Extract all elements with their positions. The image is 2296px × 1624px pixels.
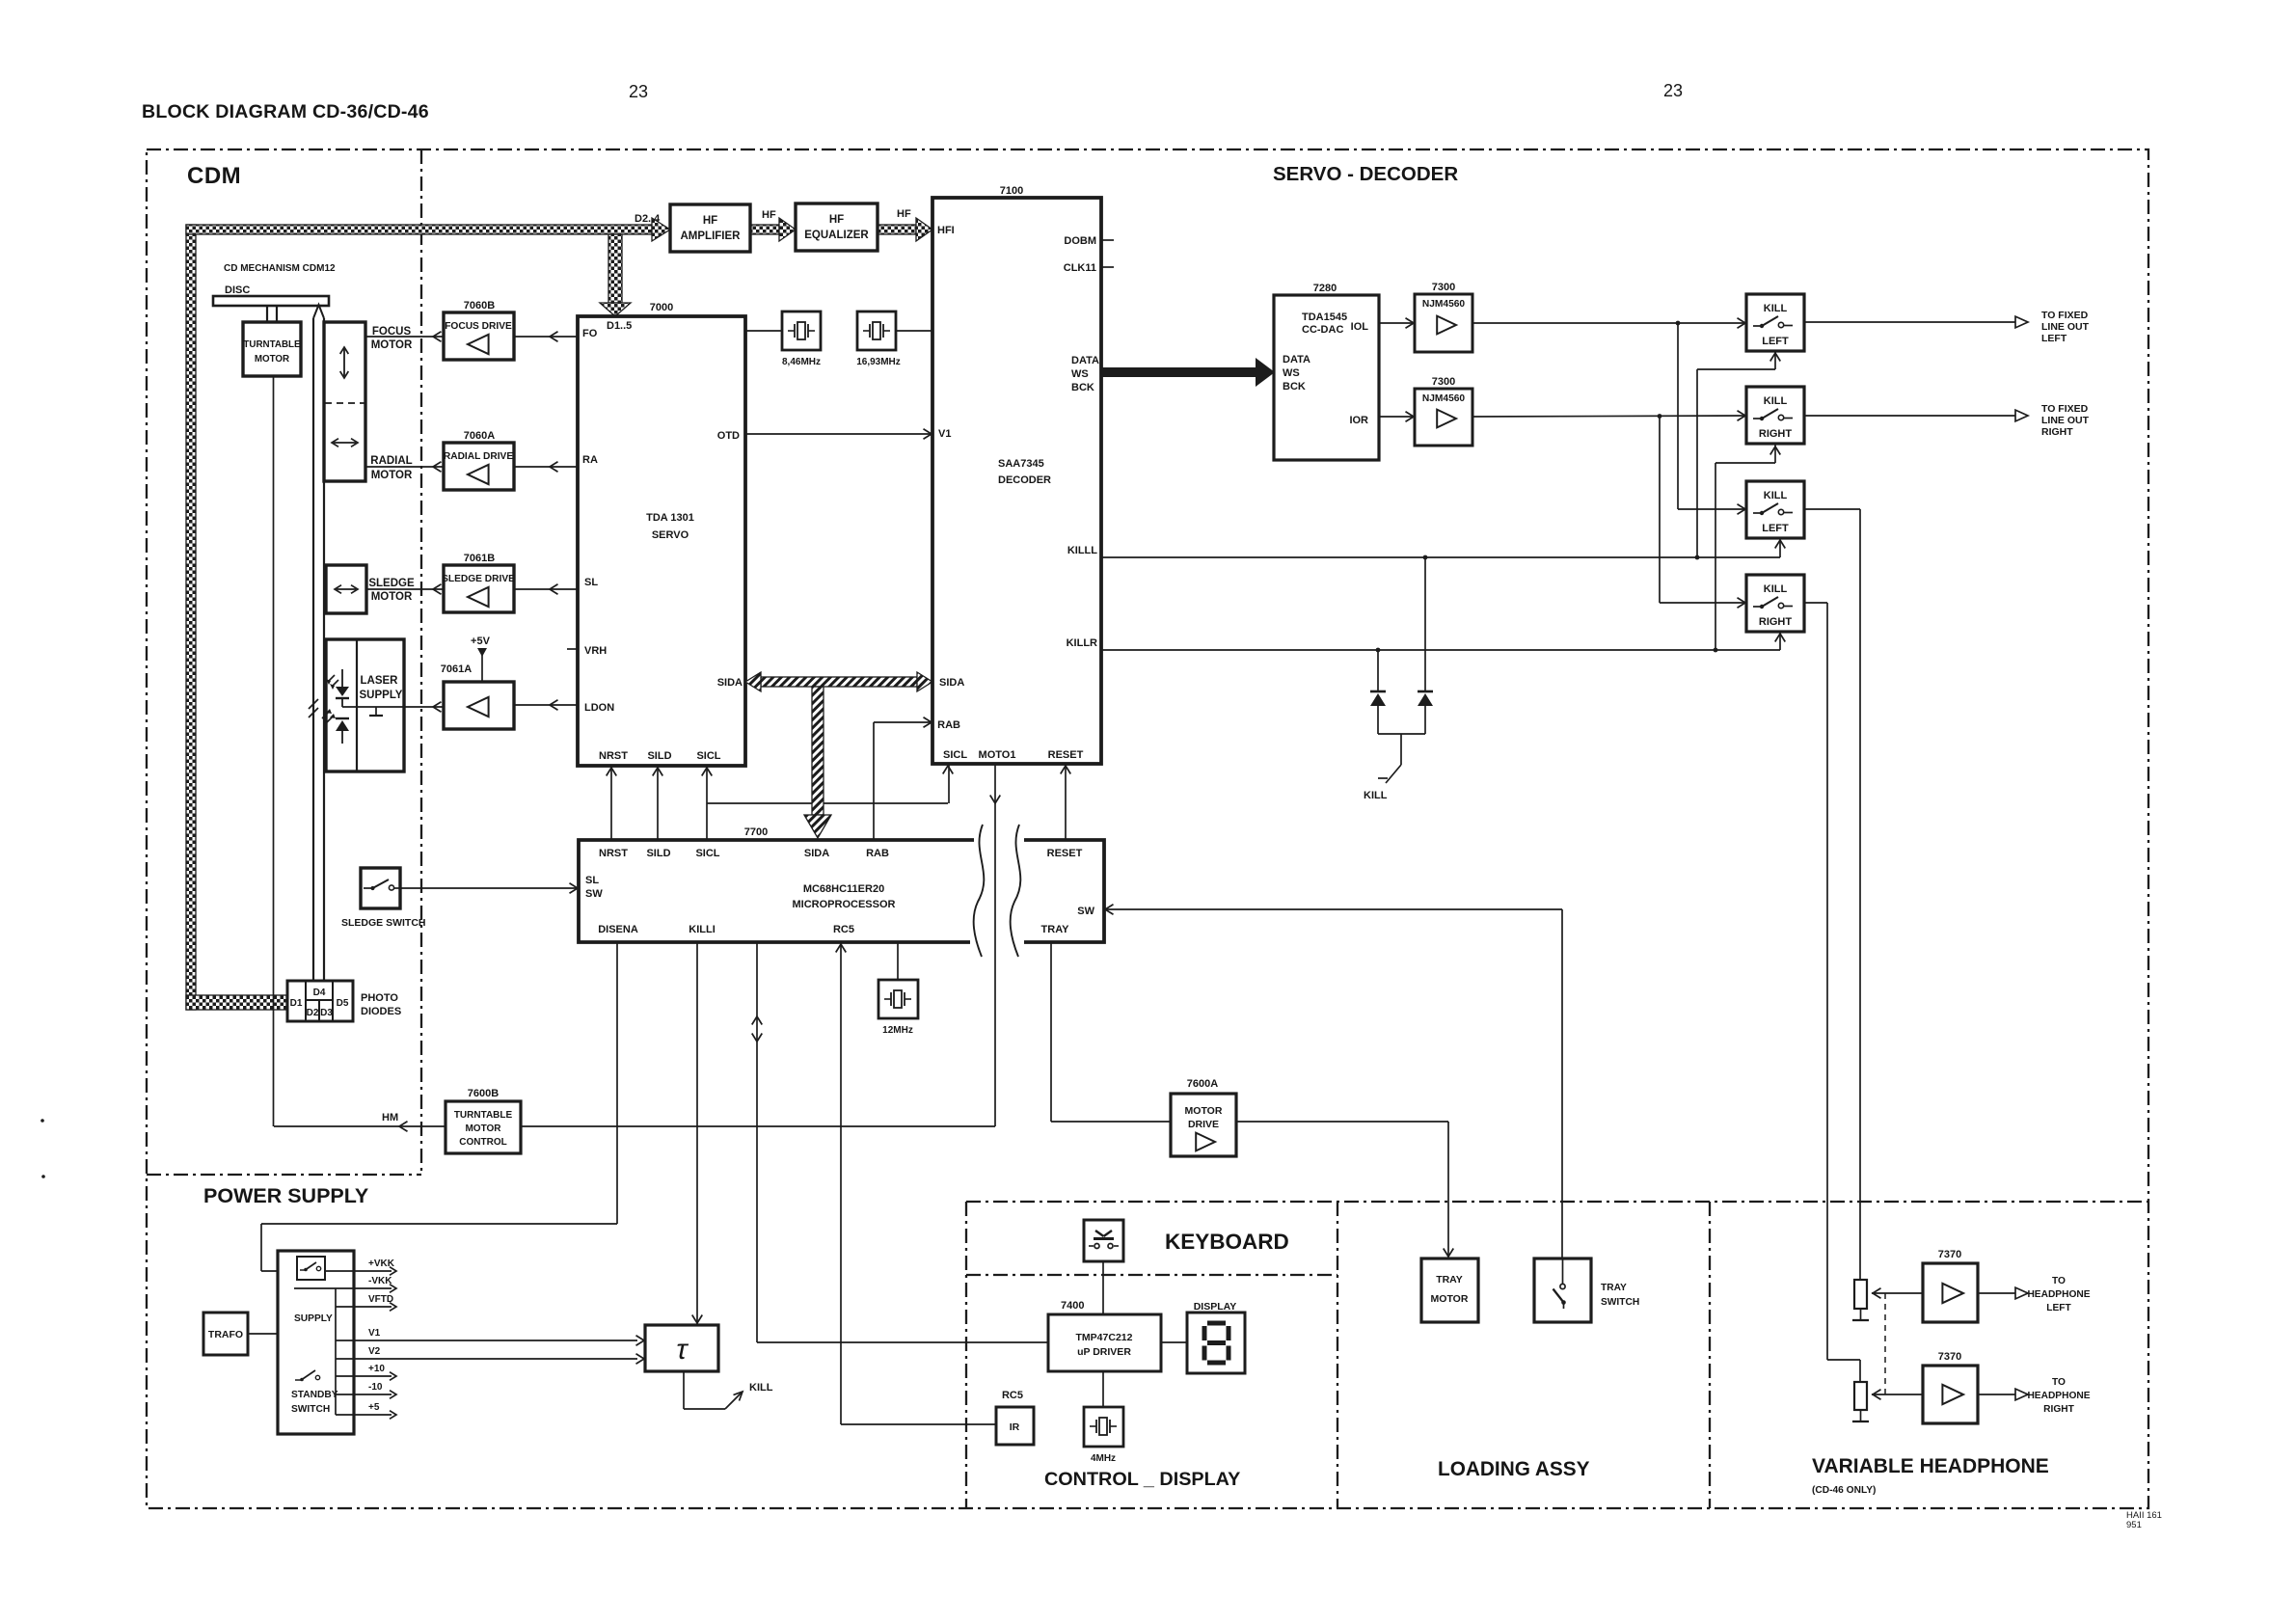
diode on KILLR bbox=[1370, 690, 1386, 693]
wire focus drive to focus motor bbox=[365, 336, 444, 338]
svg-text:NRST: NRST bbox=[599, 750, 628, 762]
svg-text:KILL: KILL bbox=[749, 1382, 773, 1394]
svg-text:KILL: KILL bbox=[1764, 583, 1788, 595]
laser diode bbox=[341, 669, 343, 687]
tray motor bbox=[1421, 1259, 1478, 1322]
svg-text:SL: SL bbox=[584, 577, 598, 588]
wire audio left to kill switches bbox=[1472, 322, 1746, 324]
svg-text:8,46MHz: 8,46MHz bbox=[782, 357, 821, 367]
transformer TRAFO bbox=[203, 1313, 248, 1355]
svg-text:KILLL: KILLL bbox=[1067, 545, 1097, 556]
svg-text:MICROPROCESSOR: MICROPROCESSOR bbox=[793, 899, 896, 910]
wire TDA1301 RA to radial drive bbox=[514, 466, 578, 468]
svg-text:TURNTABLE: TURNTABLE bbox=[454, 1110, 513, 1121]
svg-text:+VKK: +VKK bbox=[368, 1259, 395, 1269]
wire KILLR net bbox=[1101, 649, 1780, 651]
LOADING / HEADPHONE divider bbox=[1709, 1202, 1711, 1508]
wire DISENA to power supply bbox=[616, 942, 618, 1224]
wire KILLL to diode bbox=[1423, 555, 1428, 560]
svg-text:VRH: VRH bbox=[584, 645, 607, 657]
wire motor drive to tray motor bbox=[1236, 1121, 1448, 1123]
svg-text:12MHz: 12MHz bbox=[882, 1025, 913, 1036]
svg-text:KEYBOARD: KEYBOARD bbox=[1165, 1230, 1289, 1254]
svg-text:IR: IR bbox=[1010, 1421, 1020, 1433]
svg-text:SIDA: SIDA bbox=[717, 677, 743, 689]
supply box bbox=[278, 1251, 354, 1434]
kill switch fixed left bbox=[1746, 294, 1804, 351]
svg-text:+5: +5 bbox=[368, 1402, 380, 1413]
diode common wire bbox=[1378, 733, 1425, 735]
svg-text:NRST: NRST bbox=[599, 848, 628, 859]
svg-text:7600B: 7600B bbox=[468, 1088, 499, 1099]
svg-text:SICL: SICL bbox=[696, 750, 720, 762]
svg-text:7061A: 7061A bbox=[441, 663, 472, 675]
svg-text:RESET: RESET bbox=[1047, 848, 1083, 859]
svg-text:D1..5: D1..5 bbox=[607, 320, 632, 332]
disc platter bbox=[213, 296, 329, 306]
HF equalizer bbox=[796, 203, 878, 251]
svg-text:7280: 7280 bbox=[1313, 283, 1337, 294]
svg-text:EQUALIZER: EQUALIZER bbox=[804, 230, 869, 241]
svg-text:CONTROL _ DISPLAY: CONTROL _ DISPLAY bbox=[1044, 1469, 1240, 1490]
svg-text:TURNTABLE: TURNTABLE bbox=[243, 339, 301, 350]
svg-text:SICL: SICL bbox=[943, 749, 967, 761]
bottom sections top border bbox=[966, 1201, 2148, 1203]
V1 rail to tau bbox=[336, 1340, 637, 1341]
svg-text:SW: SW bbox=[1077, 906, 1094, 917]
svg-text:NJM4560: NJM4560 bbox=[1422, 393, 1466, 404]
bus arrowhead into HF equalizer bbox=[779, 218, 796, 241]
svg-text:SAA7345: SAA7345 bbox=[998, 458, 1044, 470]
pot right ground bbox=[1860, 1410, 1862, 1421]
svg-text:MOTOR: MOTOR bbox=[1185, 1105, 1223, 1117]
-10 rail bbox=[336, 1394, 392, 1395]
svg-text:KILL: KILL bbox=[1364, 790, 1388, 801]
wire MOTO1 to turntable motor control bbox=[994, 764, 996, 1126]
wire KILLR to diode bbox=[1376, 648, 1381, 653]
svg-text:D3: D3 bbox=[320, 1008, 333, 1018]
svg-text:V2: V2 bbox=[368, 1346, 381, 1357]
svg-text:RC5: RC5 bbox=[833, 924, 854, 935]
pot left ground bbox=[1860, 1309, 1862, 1320]
svg-text:7061B: 7061B bbox=[464, 553, 495, 564]
svg-text:CC-DAC: CC-DAC bbox=[1302, 324, 1343, 336]
svg-text:HFI: HFI bbox=[937, 225, 955, 236]
svg-text:+5V: +5V bbox=[471, 636, 491, 647]
svg-text:SLEDGE SWITCH: SLEDGE SWITCH bbox=[341, 917, 426, 929]
svg-text:7000: 7000 bbox=[650, 302, 673, 313]
svg-text:LEFT: LEFT bbox=[2046, 1303, 2071, 1313]
svg-text:SWITCH: SWITCH bbox=[1601, 1297, 1639, 1308]
wire to headphone left bbox=[1978, 1292, 2015, 1294]
svg-text:KILL: KILL bbox=[1764, 490, 1788, 501]
KEYBOARD section divider bbox=[966, 1274, 1337, 1276]
svg-text:FOCUS DRIVE: FOCUS DRIVE bbox=[445, 321, 512, 332]
kill switch fixed right bbox=[1746, 387, 1804, 444]
wire RESET decoder to microprocessor bbox=[1065, 764, 1067, 840]
svg-text:-VKK: -VKK bbox=[368, 1276, 392, 1286]
svg-text:FO: FO bbox=[582, 328, 598, 339]
svg-text:LINE OUT: LINE OUT bbox=[2041, 321, 2090, 333]
svg-text:BCK: BCK bbox=[1071, 382, 1094, 393]
bus arrowhead into HF amplifier bbox=[652, 218, 670, 241]
kill switch variable right bbox=[1746, 575, 1804, 632]
svg-text:MOTOR: MOTOR bbox=[1431, 1293, 1469, 1305]
photodiode bus bottom horizontal bbox=[186, 995, 286, 1010]
svg-text:V1: V1 bbox=[938, 428, 951, 440]
sledge switch bbox=[361, 868, 400, 908]
supply internal bus bbox=[335, 1288, 337, 1415]
wire trafo to supply bbox=[248, 1333, 278, 1335]
SIDA bus servo-decoder (hatched) bbox=[761, 677, 917, 687]
V2 rail to tau bbox=[336, 1358, 637, 1360]
keyboard key switch bbox=[1084, 1220, 1123, 1261]
scan speck 1 bbox=[41, 1119, 44, 1123]
crystal 4MHz bbox=[1102, 1371, 1104, 1407]
svg-text:TDA1545: TDA1545 bbox=[1302, 311, 1347, 323]
decoder SAA7345 U7100 bbox=[932, 198, 1101, 764]
svg-text:23: 23 bbox=[1663, 81, 1683, 100]
kill switch variable left bbox=[1746, 481, 1804, 538]
monitor photodiode bbox=[336, 717, 349, 719]
svg-text:CDM: CDM bbox=[187, 163, 241, 189]
wire NRST bbox=[610, 766, 612, 840]
wire fixed line out right bbox=[1804, 415, 2015, 417]
svg-text:WS: WS bbox=[1071, 368, 1089, 380]
wire SICL bbox=[706, 766, 708, 840]
svg-text:RIGHT: RIGHT bbox=[2041, 426, 2073, 438]
svg-text:DOBM: DOBM bbox=[1064, 235, 1096, 247]
svg-text:7400: 7400 bbox=[1061, 1300, 1084, 1312]
wire variable left to headphone pot bbox=[1804, 508, 1860, 510]
svg-text:D1: D1 bbox=[290, 998, 303, 1009]
svg-text:DATA: DATA bbox=[1071, 355, 1099, 366]
bus branch down to servo 7000 bbox=[608, 234, 622, 303]
potentiometer left bbox=[1854, 1280, 1867, 1309]
svg-text:RAB: RAB bbox=[937, 719, 960, 731]
svg-text:IOL: IOL bbox=[1351, 321, 1369, 333]
svg-text:MOTO1: MOTO1 bbox=[979, 749, 1016, 761]
laser supply ground bbox=[375, 707, 377, 716]
scan speck 2 bbox=[41, 1175, 45, 1178]
svg-text:23: 23 bbox=[629, 82, 648, 101]
svg-text:POWER SUPPLY: POWER SUPPLY bbox=[203, 1184, 368, 1207]
svg-text:IOR: IOR bbox=[1349, 415, 1368, 426]
svg-text:HF: HF bbox=[829, 214, 844, 226]
svg-text:V1: V1 bbox=[368, 1328, 381, 1339]
wire crystal to decoder bbox=[896, 330, 932, 332]
wire laser drive to laser supply LDON bbox=[404, 706, 444, 708]
svg-text:PHOTO: PHOTO bbox=[361, 992, 398, 1004]
wire TRAY to motor drive bbox=[1050, 942, 1052, 1122]
svg-text:MOTOR: MOTOR bbox=[371, 470, 413, 481]
crystal 8,46MHz bbox=[745, 330, 782, 332]
diode on KILLL bbox=[1418, 690, 1433, 693]
laser supply box bbox=[326, 639, 404, 771]
svg-text:TMP47C212: TMP47C212 bbox=[1076, 1332, 1133, 1343]
wire IOL to opamp bbox=[1379, 322, 1415, 324]
wire driver to display bbox=[1161, 1341, 1187, 1343]
svg-text:TO: TO bbox=[2052, 1276, 2066, 1286]
pot left wiper wire bbox=[1872, 1292, 1923, 1294]
svg-text:MC68HC11ER20: MC68HC11ER20 bbox=[803, 883, 884, 895]
svg-text:7370: 7370 bbox=[1938, 1351, 1961, 1363]
wire radial drive to radial motor bbox=[365, 466, 444, 468]
svg-text:SERVO: SERVO bbox=[652, 529, 689, 541]
svg-text:7100: 7100 bbox=[1000, 185, 1023, 197]
svg-text:+10: +10 bbox=[368, 1364, 385, 1374]
CONTROL_DISPLAY left border bbox=[965, 1202, 967, 1508]
servo TDA1301 U7000 bbox=[578, 316, 745, 766]
svg-text:VARIABLE HEADPHONE: VARIABLE HEADPHONE bbox=[1812, 1455, 2049, 1477]
svg-text:7370: 7370 bbox=[1938, 1249, 1961, 1260]
svg-text:BCK: BCK bbox=[1283, 381, 1306, 392]
svg-text:TRAY: TRAY bbox=[1601, 1283, 1627, 1293]
svg-text:KILL: KILL bbox=[1764, 303, 1788, 314]
svg-text:BLOCK DIAGRAM CD-36/CD-46: BLOCK DIAGRAM CD-36/CD-46 bbox=[142, 101, 429, 122]
svg-text:TO FIXED: TO FIXED bbox=[2041, 310, 2089, 321]
svg-text:HF: HF bbox=[762, 209, 776, 221]
svg-text:DATA: DATA bbox=[1283, 354, 1310, 365]
VRH stub bbox=[567, 648, 578, 650]
svg-text:TO: TO bbox=[2052, 1377, 2066, 1388]
wire sledge switch to microprocessor SL SW bbox=[400, 887, 579, 889]
svg-text:RIGHT: RIGHT bbox=[1759, 428, 1793, 440]
wire key to 7400 driver bbox=[1102, 1261, 1104, 1314]
wire SILD bbox=[657, 766, 659, 840]
svg-text:-10: -10 bbox=[368, 1382, 383, 1393]
svg-text:TRAY: TRAY bbox=[1041, 924, 1070, 935]
svg-text:DIODES: DIODES bbox=[361, 1006, 401, 1017]
svg-text:HF: HF bbox=[703, 215, 717, 227]
photodiode signal bus top horizontal to HF amplifier bbox=[186, 225, 652, 234]
wire RAB decoder to microprocessor bbox=[874, 721, 932, 723]
pot right wiper wire bbox=[1872, 1394, 1923, 1395]
svg-text:7700: 7700 bbox=[744, 826, 768, 838]
svg-text:7300: 7300 bbox=[1432, 282, 1455, 293]
wire TDA1301 SL to sledge drive bbox=[514, 588, 578, 590]
CDM section divider bbox=[420, 149, 422, 1175]
wire TDA1301 FO to focus drive bbox=[514, 336, 578, 338]
svg-text:DRIVE: DRIVE bbox=[1188, 1119, 1219, 1130]
svg-text:TRAFO: TRAFO bbox=[208, 1329, 243, 1340]
bus HF equalizer to decoder bbox=[878, 225, 916, 234]
radial direction arrow bbox=[334, 442, 356, 444]
svg-text:HF: HF bbox=[897, 208, 911, 220]
potentiometer right bbox=[1854, 1382, 1867, 1410]
svg-text:7060B: 7060B bbox=[464, 300, 495, 311]
wire KILLL net bbox=[1101, 556, 1780, 558]
light path ticks bbox=[309, 699, 318, 709]
svg-text:LEFT: LEFT bbox=[2041, 333, 2067, 344]
svg-text:MOTOR: MOTOR bbox=[255, 354, 289, 365]
svg-text:DISENA: DISENA bbox=[598, 924, 638, 935]
svg-text:RIGHT: RIGHT bbox=[2043, 1404, 2074, 1415]
laser pickup pillar bbox=[312, 318, 314, 981]
svg-text:VFTD: VFTD bbox=[368, 1294, 393, 1305]
svg-text:SW: SW bbox=[585, 888, 603, 900]
crystal 16,93MHz bbox=[857, 311, 896, 350]
svg-text:DECODER: DECODER bbox=[998, 474, 1051, 486]
svg-text:SUPPLY: SUPPLY bbox=[360, 690, 403, 701]
svg-text:TDA 1301: TDA 1301 bbox=[646, 512, 694, 524]
svg-text:AMPLIFIER: AMPLIFIER bbox=[681, 230, 742, 242]
photodiode array D1-D5 bbox=[287, 981, 353, 1021]
svg-text:LASER: LASER bbox=[361, 675, 399, 687]
svg-text:WS: WS bbox=[1283, 367, 1300, 379]
svg-text:OTD: OTD bbox=[717, 430, 740, 442]
wire OTD to decoder V1 bbox=[745, 433, 932, 435]
svg-text:SILD: SILD bbox=[647, 750, 671, 762]
svg-text:HM: HM bbox=[382, 1112, 398, 1123]
wire HM to turntable motor bbox=[274, 1125, 446, 1127]
crystal 12MHz bbox=[897, 942, 899, 980]
svg-text:uP DRIVER: uP DRIVER bbox=[1077, 1346, 1131, 1358]
focus/radial actuator bbox=[324, 322, 365, 481]
svg-text:RA: RA bbox=[582, 454, 598, 466]
svg-text:CD MECHANISM CDM12: CD MECHANISM CDM12 bbox=[224, 263, 336, 274]
spindle bbox=[266, 306, 268, 322]
svg-text:KILL: KILL bbox=[1764, 395, 1788, 407]
DOBM stub bbox=[1101, 239, 1114, 241]
svg-text:SILD: SILD bbox=[646, 848, 670, 859]
svg-text:SLEDGE: SLEDGE bbox=[368, 578, 415, 589]
wire SW from tray switch bbox=[1104, 908, 1562, 910]
turntable motor M1 bbox=[243, 322, 301, 376]
svg-text:D2..4: D2..4 bbox=[635, 213, 661, 225]
svg-text:DISC: DISC bbox=[225, 284, 250, 296]
wire TDA1301 LDON to laser drive bbox=[514, 704, 578, 706]
-VKK rail bbox=[294, 1287, 392, 1289]
turntable motor shaft wire bbox=[273, 376, 275, 1126]
svg-text:D4: D4 bbox=[313, 988, 326, 998]
svg-text:4MHz: 4MHz bbox=[1091, 1453, 1116, 1464]
svg-text:SICL: SICL bbox=[695, 848, 719, 859]
tau delay box bbox=[645, 1325, 718, 1371]
laser internal wire bbox=[342, 706, 404, 708]
+VKK rail bbox=[325, 1270, 392, 1272]
svg-text:SERVO - DECODER: SERVO - DECODER bbox=[1273, 163, 1458, 185]
bus arrowhead into servo 7000 bbox=[600, 303, 631, 316]
svg-text:LINE OUT: LINE OUT bbox=[2041, 415, 2090, 426]
photodiode signal bus (checkered) left vertical bbox=[186, 225, 196, 1010]
VFTD rail bbox=[336, 1306, 392, 1308]
audio data bus DATA WS BCK (thick) bbox=[1101, 367, 1257, 377]
wire IOR to opamp bbox=[1379, 416, 1415, 418]
svg-text:RESET: RESET bbox=[1048, 749, 1084, 761]
svg-text:HEADPHONE: HEADPHONE bbox=[2027, 1391, 2090, 1401]
svg-text:RC5: RC5 bbox=[1002, 1390, 1023, 1401]
wire tau KILL output bbox=[683, 1371, 685, 1409]
svg-text:STANDBY: STANDBY bbox=[291, 1390, 338, 1400]
svg-text:DISPLAY: DISPLAY bbox=[1194, 1301, 1237, 1313]
svg-text:RAB: RAB bbox=[866, 848, 889, 859]
sledge motor bbox=[326, 565, 366, 613]
svg-text:SLEDGE DRIVE: SLEDGE DRIVE bbox=[442, 574, 515, 584]
svg-text:SUPPLY: SUPPLY bbox=[294, 1313, 333, 1324]
svg-text:KILLR: KILLR bbox=[1067, 637, 1097, 649]
svg-text:MOTOR: MOTOR bbox=[371, 591, 413, 603]
KILL switch lever bbox=[1386, 765, 1401, 783]
focus direction arrow bbox=[343, 349, 345, 376]
+VKK relay switch bbox=[297, 1257, 325, 1280]
svg-text:LDON: LDON bbox=[584, 702, 614, 714]
wire variable right to headphone pot bbox=[1804, 602, 1827, 604]
svg-text:τ: τ bbox=[676, 1334, 689, 1366]
wire serial link uP to 7400 driver bbox=[756, 942, 758, 1342]
svg-text:951: 951 bbox=[2126, 1520, 2142, 1530]
svg-text:HEADPHONE: HEADPHONE bbox=[2027, 1289, 2090, 1300]
bus HF amplifier to HF equalizer bbox=[750, 225, 779, 234]
svg-text:RADIAL DRIVE: RADIAL DRIVE bbox=[444, 451, 513, 462]
wire SICL branch to decoder bbox=[707, 802, 948, 804]
svg-text:CONTROL: CONTROL bbox=[459, 1137, 506, 1148]
svg-text:TRAY: TRAY bbox=[1436, 1274, 1463, 1286]
svg-text:CLK11: CLK11 bbox=[1064, 262, 1096, 274]
svg-text:16,93MHz: 16,93MHz bbox=[856, 357, 901, 367]
tray switch bbox=[1534, 1259, 1591, 1322]
svg-text:D5: D5 bbox=[337, 998, 349, 1009]
svg-text:MOTOR: MOTOR bbox=[465, 1123, 501, 1134]
svg-text:SL: SL bbox=[585, 875, 599, 886]
svg-text:LEFT: LEFT bbox=[1762, 523, 1789, 534]
gang dashed link bbox=[1884, 1293, 1886, 1394]
svg-text:7060A: 7060A bbox=[464, 430, 495, 442]
outer dash-dot border bbox=[147, 149, 2148, 1508]
wire RC5 from IR bbox=[840, 942, 842, 1424]
svg-text:7600A: 7600A bbox=[1187, 1078, 1218, 1090]
HF amplifier bbox=[670, 204, 750, 252]
svg-text:KILLI: KILLI bbox=[689, 924, 716, 935]
svg-text:SIDA: SIDA bbox=[939, 677, 964, 689]
+10 rail bbox=[336, 1375, 392, 1377]
wire to headphone right bbox=[1978, 1394, 2015, 1395]
svg-text:NJM4560: NJM4560 bbox=[1422, 299, 1466, 310]
CLK11 stub bbox=[1101, 266, 1114, 268]
svg-text:MOTOR: MOTOR bbox=[371, 339, 413, 351]
wire fixed line out left bbox=[1804, 321, 2015, 323]
svg-text:SWITCH: SWITCH bbox=[291, 1404, 330, 1415]
svg-text:SIDA: SIDA bbox=[804, 848, 829, 859]
CONTROL_DISPLAY / LOADING divider bbox=[1337, 1202, 1338, 1508]
svg-text:RADIAL: RADIAL bbox=[370, 455, 412, 467]
microprocessor MC68HC11ER20 U7700 bbox=[579, 840, 974, 942]
svg-text:LOADING ASSY: LOADING ASSY bbox=[1438, 1458, 1590, 1480]
svg-text:RIGHT: RIGHT bbox=[1759, 616, 1793, 628]
svg-text:TO FIXED: TO FIXED bbox=[2041, 403, 2089, 415]
svg-text:7300: 7300 bbox=[1432, 376, 1455, 388]
svg-text:(CD-46 ONLY): (CD-46 ONLY) bbox=[1812, 1485, 1876, 1496]
standby switch bbox=[295, 1379, 301, 1381]
CDM section bottom border bbox=[147, 1174, 421, 1176]
SIDA bus branch to microprocessor bbox=[812, 687, 824, 815]
wire audio right to kill switches bbox=[1472, 416, 1746, 417]
svg-text:LEFT: LEFT bbox=[1762, 336, 1789, 347]
+5 rail bbox=[336, 1414, 392, 1416]
bus arrowhead into decoder HFI bbox=[916, 218, 932, 241]
wire KILLI to tau bbox=[696, 942, 698, 1325]
wire sledge drive to sledge motor bbox=[366, 588, 444, 590]
svg-text:D2: D2 bbox=[307, 1008, 319, 1018]
